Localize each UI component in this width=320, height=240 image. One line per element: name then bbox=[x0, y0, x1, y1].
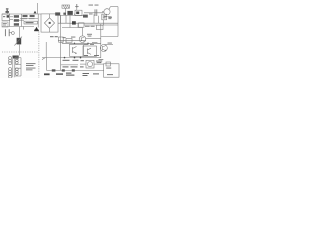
transistor Q3 circle bbox=[100, 45, 107, 52]
table text specks row2 bbox=[63, 66, 84, 67]
text specks bbox=[89, 5, 99, 15]
capacitor C5 plate bbox=[4, 29, 6, 36]
specks right of meter bbox=[96, 61, 102, 64]
resistor R4 (horizontal) bbox=[24, 21, 38, 24]
antenna wire vertical bbox=[37, 3, 39, 14]
trimmer symbol bbox=[75, 4, 78, 8]
capacitor C5 plate bbox=[8, 29, 10, 36]
transformer right windings bbox=[16, 57, 19, 64]
component (ceramic filter) bbox=[59, 37, 64, 42]
wire stub bbox=[23, 27, 25, 30]
specks right of box bbox=[108, 15, 112, 18]
label text specks bbox=[3, 23, 7, 25]
amp box A1 bbox=[70, 44, 84, 56]
wire second bus bbox=[84, 24, 118, 26]
specks near Q3 bbox=[108, 42, 112, 45]
wire mid-left horizontal bbox=[20, 18, 38, 20]
battery terminal comp bbox=[106, 62, 111, 66]
component box bbox=[97, 25, 104, 29]
table mid line bbox=[61, 64, 78, 66]
diamond inner marks bbox=[49, 22, 51, 24]
table text specks row1 bbox=[63, 60, 84, 61]
wire amp top bus bbox=[62, 42, 101, 44]
electrolytic cap C4 (dark blob) bbox=[34, 27, 39, 31]
wire vertical bbox=[98, 16, 100, 23]
wire vertical shield feed bbox=[37, 14, 39, 28]
winding value text specks bbox=[26, 63, 36, 70]
wire trimmer lead bbox=[76, 8, 78, 10]
transformer T1 primary winding bbox=[9, 57, 12, 65]
box inner speck bbox=[76, 12, 79, 15]
wire bbox=[9, 14, 11, 27]
coil marks inside L1 bbox=[7, 15, 9, 17]
transformer secondary leads bbox=[15, 58, 21, 76]
transformer T2 winding bbox=[9, 68, 12, 79]
text specks bbox=[63, 34, 98, 44]
switch tick bbox=[42, 58, 45, 60]
component box bbox=[79, 23, 85, 27]
comp box inner bars bbox=[103, 15, 106, 18]
Q3 lead right bbox=[105, 44, 114, 46]
coupling block (dark) bbox=[13, 56, 19, 59]
component box on wire bbox=[66, 38, 72, 42]
box L1 (left input box) bbox=[2, 14, 10, 21]
junction blob bbox=[72, 21, 76, 24]
meter lead left bbox=[80, 63, 86, 65]
indicator circle bbox=[12, 32, 15, 35]
caption specks below bbox=[44, 73, 74, 76]
oscillator coil L2 (top middle) bbox=[62, 5, 70, 8]
capacitor C2 (hatched) bbox=[30, 15, 35, 17]
resistor R2 bbox=[14, 19, 19, 22]
transistor Q1 circle bbox=[104, 9, 110, 15]
wire verticals to amp bbox=[62, 41, 66, 44]
wire right frame vertical bbox=[117, 7, 119, 37]
component box right bbox=[102, 14, 107, 20]
wire vertical right of transformer bbox=[20, 58, 22, 76]
wire right vertical bbox=[103, 20, 105, 25]
capacitor C3 (hatched, on box top right) bbox=[55, 12, 60, 15]
junction dots bbox=[64, 57, 82, 59]
wire bbox=[9, 32, 11, 34]
ground symbol bbox=[99, 60, 104, 63]
ring mixer diamond bbox=[44, 18, 54, 28]
label box (left) bbox=[2, 22, 8, 27]
mid bus wire bbox=[58, 22, 118, 24]
meter lead right bbox=[94, 63, 104, 65]
wire long right vertical bbox=[100, 24, 102, 58]
battery specks bbox=[83, 55, 114, 76]
potentiometer arrow bbox=[14, 37, 22, 46]
resistor R1 bbox=[14, 15, 19, 18]
arrow on tuning cap bbox=[34, 11, 37, 14]
lower mid wire bbox=[62, 27, 82, 29]
wire short y20 bbox=[18, 19, 24, 21]
Q3 internals bbox=[102, 46, 105, 51]
wire pot down bbox=[19, 45, 21, 56]
amp box A2 bbox=[83, 46, 97, 56]
main bottom bus bbox=[42, 57, 101, 59]
capacitor C1 (hatched) bbox=[23, 15, 28, 17]
top bus wire bbox=[56, 14, 86, 16]
wire top right bbox=[111, 6, 119, 8]
wire vertical right of stack bbox=[21, 14, 23, 27]
capacitor plates bbox=[95, 9, 97, 16]
meter M1 box bbox=[86, 60, 94, 68]
diamond leads bbox=[49, 14, 51, 32]
wire bbox=[60, 15, 62, 33]
wire stub to resistor stack bbox=[10, 16, 13, 18]
specks above amp bbox=[84, 43, 94, 46]
wire verticals grid bbox=[61, 14, 79, 28]
wire vertical left of speaker box bbox=[45, 42, 47, 58]
top bus wire right bbox=[84, 12, 104, 14]
speaker box bbox=[47, 34, 61, 71]
battery box bbox=[104, 64, 120, 77]
transistor Q2 circle bbox=[79, 36, 86, 43]
resistor R3 bbox=[14, 23, 19, 26]
wire right horizontal bbox=[101, 36, 118, 38]
wire mid horizontal 2 bbox=[86, 38, 101, 40]
wire top-left horizontal bbox=[2, 13, 41, 15]
bottom wire bbox=[61, 69, 104, 71]
wire L2 lead down bbox=[65, 8, 67, 15]
wire stub bbox=[10, 19, 13, 21]
wire vertical cap lead bbox=[93, 14, 95, 23]
potentiometer P1 (dark) bbox=[17, 38, 22, 45]
meter circle bbox=[87, 62, 92, 67]
small comps on bottom wire bbox=[52, 69, 75, 71]
Q1 leads bbox=[102, 7, 111, 12]
Q2 collector wire bbox=[82, 28, 84, 36]
wire lower-left horizontal bbox=[2, 26, 34, 28]
Q3 emitter arrowhead bbox=[105, 50, 106, 52]
shield dashed horizontal bbox=[2, 51, 39, 53]
transformer T1 core bbox=[13, 57, 15, 77]
mixer box U1 bbox=[41, 14, 58, 32]
speck between comps bbox=[63, 13, 66, 15]
wire antenna lead down bbox=[6, 13, 8, 14]
value specks under C1 C2 bbox=[22, 17, 35, 20]
transistor symbol in A2 bbox=[88, 48, 92, 54]
text specks below bbox=[85, 25, 95, 28]
Q1 lead specks bbox=[104, 16, 112, 18]
Q2 base bar bbox=[81, 37, 84, 42]
background paper bbox=[0, 0, 120, 78]
wire mid horizontal bbox=[58, 40, 86, 42]
antenna trimmer TR1 bbox=[6, 8, 9, 12]
capacitor (hatched) bbox=[83, 15, 88, 18]
transistor symbol in A1 bbox=[73, 47, 77, 54]
component box bbox=[75, 10, 82, 15]
junction dots on amp bus bbox=[74, 43, 75, 44]
shield dashed vertical bbox=[38, 32, 40, 79]
dark block (crystal) bbox=[67, 11, 72, 15]
L2 inner marks bbox=[63, 5, 69, 8]
wire pot to top bbox=[19, 27, 21, 38]
